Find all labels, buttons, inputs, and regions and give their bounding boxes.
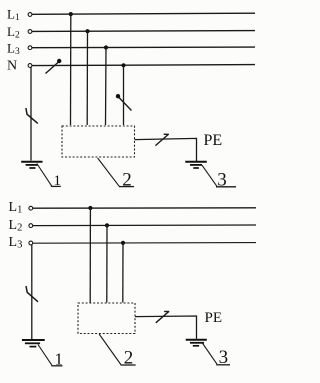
- terminal circle L2: [28, 30, 32, 34]
- disconnect slash with dot on N drop: [116, 94, 132, 111]
- earth electrode 3 (bottom): [186, 340, 207, 346]
- fault mark on earthing conductor: [26, 108, 38, 123]
- junction dot on N: [121, 63, 125, 67]
- fault mark on PE wire (top): [155, 134, 169, 145]
- callout 2 (bottom): [99, 334, 136, 368]
- svg-text:1: 1: [54, 173, 62, 189]
- svg-text:2: 2: [124, 347, 134, 368]
- wire L2 bus (bottom): [33, 224, 256, 227]
- svg-text:PE: PE: [204, 132, 223, 149]
- terminal circle L1 (bottom): [29, 206, 33, 210]
- junction dot on L3: [104, 45, 108, 49]
- svg-text:3: 3: [219, 347, 229, 368]
- junction dot on L2 (bottom): [105, 223, 109, 227]
- wire drop from L3 to box: [105, 48, 108, 126]
- junction dot on L3 (bottom): [121, 241, 125, 245]
- wire drop from L1 to box (bottom): [89, 208, 91, 303]
- wire drop from L2 to box (bottom): [106, 225, 108, 302]
- wire L3 bus (bottom): [33, 242, 256, 245]
- wire L3 bus: [32, 46, 255, 49]
- PE wire from box to earth (top): [135, 138, 197, 161]
- wire L2 bus: [32, 30, 255, 33]
- callout 2 (top): [98, 158, 134, 190]
- terminal circle L3 (bottom): [29, 241, 33, 245]
- wire drop from L3 to box (bottom): [122, 243, 124, 303]
- svg-text:1: 1: [55, 349, 64, 368]
- junction dot on L1: [69, 12, 73, 16]
- svg-text:N: N: [7, 59, 17, 74]
- callout 3 (bottom): [203, 344, 230, 369]
- wire drop from L2 to box: [86, 31, 88, 125]
- wire drop from L1 to box: [70, 14, 72, 125]
- wire drop from N to box: [123, 65, 125, 125]
- callout 3 (top): [202, 165, 236, 191]
- wire L1 bus (bottom): [33, 207, 256, 209]
- equipment box 2 (dashed): [62, 126, 135, 157]
- fault mark on PE wire (bottom): [156, 312, 170, 323]
- wire N bus: [32, 65, 255, 66]
- earthing conductor from L3 terminal (bottom): [31, 245, 33, 340]
- callout 1 (bottom): [38, 345, 63, 369]
- wire L1 bus: [32, 13, 255, 14]
- equipment box 2 (bottom, dashed): [78, 303, 135, 334]
- svg-text:2: 2: [122, 169, 132, 190]
- earth electrode 3 (top): [185, 162, 207, 168]
- svg-text:PE: PE: [205, 310, 223, 326]
- junction dot on L1 (bottom): [88, 206, 92, 210]
- terminal circle N: [28, 64, 32, 68]
- terminal circle L3: [28, 46, 32, 50]
- earth electrode 1 (bottom): [22, 340, 45, 347]
- PE wire from box to earth (bottom): [135, 316, 197, 339]
- svg-text:3: 3: [217, 170, 227, 191]
- junction dot on L2: [85, 29, 89, 33]
- terminal circle L1: [28, 13, 32, 17]
- callout 1 (top): [37, 164, 61, 190]
- terminal circle L2 (bottom): [29, 224, 33, 228]
- earth electrode 1 (ground symbol): [21, 162, 42, 168]
- fault mark on earthing conductor (bottom): [26, 286, 38, 302]
- disconnect slash with dot on N bus: [46, 59, 62, 74]
- earthing conductor from N terminal: [30, 67, 32, 160]
